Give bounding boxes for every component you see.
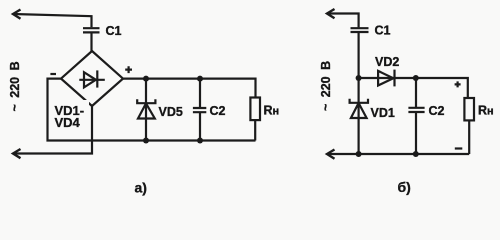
svg-text:VD2: VD2 [375,55,399,69]
svg-text:C1: C1 [375,24,391,38]
svg-text:Rн: Rн [264,104,280,118]
svg-text:Rн: Rн [478,104,494,118]
svg-text:C1: C1 [106,24,122,38]
svg-text:VD1: VD1 [371,106,395,120]
svg-text:~ 220 В: ~ 220 В [319,61,333,111]
svg-text:~ 220 В: ~ 220 В [8,61,22,111]
svg-text:б): б) [398,179,411,195]
svg-text:а): а) [135,180,147,196]
svg-text:VD5: VD5 [159,105,183,119]
svg-text:VD4: VD4 [55,115,81,130]
svg-text:C2: C2 [210,104,226,118]
svg-text:C2: C2 [429,104,445,118]
